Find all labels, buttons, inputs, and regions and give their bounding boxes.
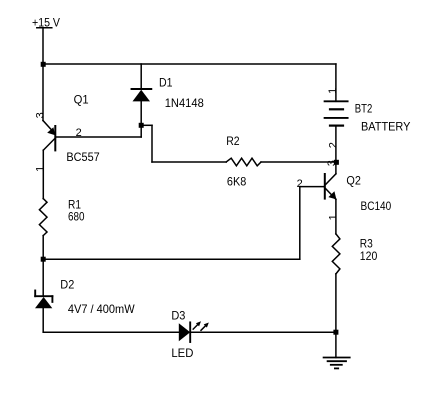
- svg-text:BC557: BC557: [66, 150, 100, 164]
- junction battery/R2/Q2: [334, 160, 339, 165]
- battery BT2 plate short bottom: [330, 124, 343, 126]
- wire D1 node to Q1 base: [140, 125, 142, 137]
- svg-text:1: 1: [34, 166, 46, 172]
- transistor Q1 collector wire: [42, 150, 44, 198]
- wire battery to node: [335, 126, 337, 162]
- LED D3 light arrow 1 head: [196, 321, 201, 326]
- svg-text:BATTERY: BATTERY: [361, 119, 410, 133]
- transistor Q2 base bar: [324, 174, 326, 199]
- svg-text:3: 3: [34, 112, 46, 118]
- transistor Q2 emitter diagonal: [325, 188, 336, 200]
- svg-text:2: 2: [76, 127, 82, 139]
- wire R1 to junction: [42, 236, 44, 260]
- wire D2 to bottom corner: [42, 308, 44, 332]
- LED D3 triangle: [179, 323, 190, 341]
- transistor Q1 collector diagonal: [43, 138, 55, 150]
- battery BT2 plate long top: [325, 100, 348, 102]
- zener D2 cathode hook right: [51, 296, 53, 302]
- svg-text:1N4148: 1N4148: [165, 96, 204, 110]
- battery BT2 plate short: [330, 108, 343, 110]
- LED D3 light arrow 2 head: [204, 323, 209, 328]
- transistor Q2 collector diagonal: [325, 174, 336, 186]
- transistor Q2 emitter arrow: [328, 191, 336, 199]
- transistor Q1 emitter diagonal: [43, 121, 55, 135]
- battery BT2 plate long: [325, 117, 348, 119]
- svg-text:BT2: BT2: [355, 101, 373, 115]
- wire cross to Q2 base branch: [43, 258, 300, 260]
- wire to R2: [152, 161, 226, 163]
- svg-text:D3: D3: [171, 309, 185, 323]
- zener D2 cathode bar: [35, 295, 52, 297]
- diode D1 triangle: [133, 90, 151, 102]
- diode D1 wire to node: [140, 101, 142, 125]
- resistor R1: [39, 199, 47, 236]
- LED D3 light arrow 2 line: [201, 326, 206, 331]
- wire LED to ground junction: [190, 331, 336, 333]
- diode D1 cathode bar: [132, 88, 152, 90]
- wire top rail: [43, 63, 336, 65]
- svg-text:D1: D1: [159, 75, 173, 89]
- transistor Q1 emitter arrow: [47, 127, 55, 135]
- transistor Q1 emitter wire: [42, 64, 44, 121]
- transistor Q2 emitter wire: [335, 199, 337, 234]
- svg-text:R2: R2: [226, 134, 240, 148]
- svg-text:Q2: Q2: [346, 173, 361, 187]
- ground bar 4: [335, 367, 338, 369]
- svg-text:BC140: BC140: [361, 199, 392, 213]
- svg-text:2: 2: [297, 178, 303, 190]
- diode D1 wire from rail: [140, 64, 142, 89]
- resistor R2: [226, 158, 261, 166]
- svg-text:6K8: 6K8: [227, 175, 247, 189]
- ground bar 1: [324, 357, 350, 359]
- zener D2 cathode hook left: [34, 291, 36, 297]
- junction D1 bottom: [139, 123, 144, 128]
- ground bar 2: [328, 360, 346, 362]
- svg-text:D2: D2: [60, 278, 74, 292]
- junction LED/ground: [333, 330, 338, 335]
- junction top-left: [41, 62, 46, 67]
- wire R2 to junction: [261, 161, 336, 163]
- svg-text:120: 120: [360, 249, 378, 263]
- supply +15V bar: [37, 27, 52, 29]
- wire to Q2 base: [300, 186, 325, 188]
- wire D1 node right: [141, 124, 152, 126]
- svg-text:3: 3: [326, 160, 338, 166]
- zener D2 triangle: [35, 297, 52, 308]
- svg-text:Q1: Q1: [74, 93, 89, 107]
- transistor Q1 base bar: [54, 126, 56, 150]
- wire bottom left to LED: [43, 331, 179, 333]
- wire R3 to ground junction: [335, 274, 337, 332]
- svg-text:680: 680: [68, 209, 85, 223]
- transistor Q2 collector wire: [335, 162, 337, 174]
- svg-text:LED: LED: [171, 346, 193, 360]
- svg-text:2: 2: [327, 142, 339, 148]
- svg-text:4V7 / 400mW: 4V7 / 400mW: [68, 302, 135, 316]
- resistor R3: [332, 234, 340, 274]
- LED D3 light arrow 1 line: [193, 324, 198, 329]
- wire supply to rail: [42, 28, 44, 64]
- wire junction to D2: [42, 259, 44, 296]
- svg-text:1: 1: [327, 214, 339, 220]
- wire up to Q2 base level: [299, 187, 301, 260]
- wire junction to ground: [335, 332, 337, 357]
- ground bar 3: [331, 364, 342, 366]
- transistor Q1 base wire: [55, 136, 141, 138]
- wire rail to battery: [335, 64, 337, 101]
- svg-text:1: 1: [327, 88, 339, 94]
- wire down to R2 level: [151, 125, 153, 162]
- junction R1/D2/cross wire: [41, 257, 46, 262]
- LED D3 cathode bar: [189, 322, 191, 342]
